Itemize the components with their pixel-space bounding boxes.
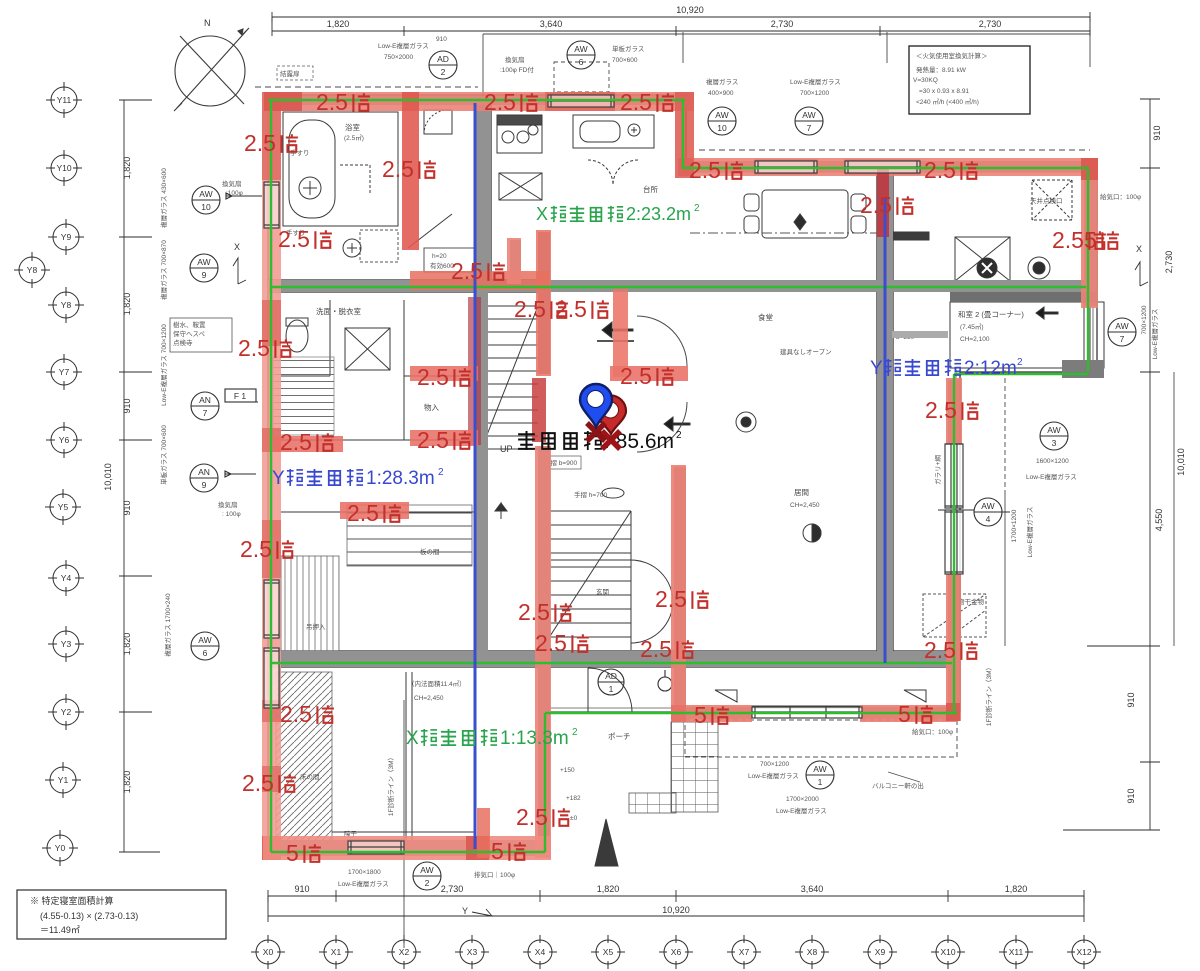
- svg-text:1:28.3m: 1:28.3m: [366, 468, 435, 489]
- note tesuri1: [541, 456, 581, 469]
- svg-text:AW: AW: [813, 764, 826, 774]
- svg-text:Y5: Y5: [58, 502, 69, 512]
- svg-text:<240 ㎥/h (<400 ㎥/h): <240 ㎥/h (<400 ㎥/h): [916, 97, 979, 106]
- svg-text:1,820: 1,820: [597, 884, 620, 894]
- label 2.5x top1: [316, 89, 370, 115]
- svg-text:CH=2,450: CH=2,450: [414, 695, 444, 702]
- axis X10: [931, 935, 965, 969]
- svg-text:3: 3: [1052, 438, 1057, 448]
- svg-text:1: 1: [818, 777, 823, 787]
- wall X10 vertical lower: [948, 574, 959, 720]
- special area calculation table: [17, 890, 226, 939]
- dark segment left band y430: [262, 428, 281, 452]
- porch tile grid: [671, 722, 718, 812]
- roof outline above plan: [255, 30, 1174, 948]
- counter box note: [424, 248, 478, 272]
- label 2.5x stairs-a: [514, 296, 568, 322]
- svg-text:天井点検口: 天井点検口: [1030, 196, 1063, 205]
- axis Y10: [46, 150, 82, 186]
- wall under top band: [266, 96, 690, 105]
- bath drain circle: [299, 177, 321, 199]
- svg-text:Low-E複層ガラス: Low-E複層ガラス: [790, 77, 841, 86]
- svg-text:X: X: [1136, 244, 1142, 254]
- reinforced wall horizontal corridor 2.5x: [410, 430, 478, 446]
- svg-text:床の間: 床の間: [300, 772, 320, 781]
- green diagnosis line left vertical: [270, 100, 272, 852]
- axis X3: [455, 935, 489, 969]
- reinforced wall X12 vertical 2.5x: [1081, 158, 1098, 308]
- svg-text:1,820: 1,820: [122, 633, 132, 656]
- toilet: [286, 320, 308, 352]
- washitsu2 bay window: [1084, 302, 1104, 368]
- dark segment left band y700: [262, 700, 281, 722]
- window frame over top-right band a: [755, 161, 817, 173]
- note balcony leader: [888, 772, 920, 782]
- balcony dashed outline: [685, 720, 957, 757]
- reinforced wall X3 vertical above bottom band: [477, 808, 490, 858]
- svg-text:AW: AW: [802, 110, 815, 120]
- window label AD1: [598, 669, 624, 695]
- dark segment bottom band X3: [466, 836, 489, 860]
- svg-text:＝11.49㎡: ＝11.49㎡: [40, 925, 80, 935]
- label 2.5x topright1: [689, 157, 743, 183]
- svg-text:4,550: 4,550: [1154, 509, 1164, 532]
- window label AW7 right: [1108, 318, 1136, 346]
- window label AN9 left: [190, 464, 256, 492]
- genkan door arcs: [631, 560, 673, 643]
- kitchen back counter dark: [889, 232, 929, 240]
- left window frame top: [264, 182, 280, 228]
- svg-text:排気口｜100φ: 排気口｜100φ: [474, 870, 515, 879]
- reinforced wall stub vertical near kitchen 2.5x: [507, 238, 521, 284]
- reinforced wall X3 vertical dark over blue: [468, 297, 481, 445]
- svg-text:食堂: 食堂: [758, 312, 773, 322]
- stair lower treads: [541, 511, 631, 650]
- svg-text:1700×1800: 1700×1800: [348, 869, 381, 876]
- engawa window frame b: [945, 510, 963, 574]
- note condensation box: [277, 66, 313, 80]
- door bell circle: [658, 677, 672, 691]
- svg-text:+150: +150: [560, 767, 575, 774]
- svg-text:N: N: [204, 18, 211, 28]
- label 5x bottom-l: [286, 840, 321, 866]
- green diagnosis line south horizontal left: [271, 851, 545, 853]
- svg-text:X6: X6: [671, 947, 682, 957]
- svg-text:（内法面積11.4㎡）: （内法面積11.4㎡）: [408, 679, 466, 688]
- label 2.5x midwall: [451, 258, 505, 284]
- svg-text:Low-E複層ガラス: Low-E複層ガラス: [776, 806, 827, 815]
- svg-text:400×900: 400×900: [708, 90, 734, 97]
- svg-text:2: 2: [441, 67, 446, 77]
- washitsu1 wall X2: [406, 672, 412, 844]
- svg-text:Y2: Y2: [61, 707, 72, 717]
- light symbol: [1028, 257, 1050, 279]
- window frame over bottom band: [348, 841, 404, 854]
- hoshi kanamono dashed box: [923, 594, 986, 637]
- reinforced stair wall horizontal left 2.5x: [410, 366, 478, 381]
- svg-text:和室 2 (畳コーナー): 和室 2 (畳コーナー): [958, 309, 1024, 319]
- reinforced wall overlay top-right horizontal 2.5x: [678, 158, 1098, 176]
- outer right dim line: [1173, 372, 1175, 646]
- svg-text:1: 1: [609, 684, 614, 694]
- arrow stair up: [495, 503, 507, 519]
- svg-text:Y1: Y1: [58, 775, 69, 785]
- svg-text:CH=2,450: CH=2,450: [790, 502, 820, 509]
- washitsu2 sliding door arrow: [1036, 307, 1058, 319]
- svg-text:700×1200: 700×1200: [800, 90, 829, 97]
- svg-text:Low-E複層ガラス 700×1200: Low-E複層ガラス 700×1200: [159, 324, 168, 406]
- svg-text:±0: ±0: [570, 815, 578, 822]
- axis Y6: [46, 422, 82, 458]
- svg-text:台所: 台所: [643, 184, 658, 194]
- right dimension line: [1063, 99, 1160, 830]
- svg-text:AW: AW: [715, 110, 728, 120]
- svg-text:AN: AN: [199, 395, 211, 405]
- wall X4 vertical lower: [538, 446, 550, 858]
- svg-text:3,640: 3,640: [801, 884, 824, 894]
- svg-text:1F診断ライン（3M）: 1F診断ライン（3M）: [984, 664, 993, 726]
- wall under top-right band: [681, 161, 1096, 172]
- wall south of porch right: [862, 707, 957, 719]
- svg-text:Low-E複層ガラス: Low-E複層ガラス: [748, 771, 799, 780]
- wall X6 genkan vertical: [674, 467, 686, 717]
- axis Y1: [45, 762, 81, 798]
- svg-text:2,730: 2,730: [979, 19, 1002, 29]
- label 2.5x stairs-b: [555, 296, 609, 322]
- svg-text:洗面・脱衣室: 洗面・脱衣室: [316, 306, 361, 316]
- svg-text:発熱量：8.91 kW: 発熱量：8.91 kW: [916, 65, 967, 74]
- svg-text:X12: X12: [1076, 947, 1091, 957]
- wall X4 stair vertical upper: [538, 232, 550, 374]
- svg-text:給気口：100φ: 給気口：100φ: [1100, 192, 1141, 201]
- reinforced wall mid horizontal over washroom wall 2.5x: [410, 271, 549, 290]
- wall washroom horizontal: [268, 280, 549, 292]
- svg-text:AW: AW: [1115, 321, 1128, 331]
- level marker oval hall: [602, 488, 624, 498]
- svg-text:2,730: 2,730: [1164, 251, 1174, 274]
- svg-text:手摺 h=700: 手摺 h=700: [574, 490, 607, 499]
- svg-text:AW: AW: [197, 257, 210, 267]
- hall door arc lower: [637, 402, 687, 452]
- svg-text:910: 910: [1152, 125, 1162, 140]
- svg-text:1700×1200: 1700×1200: [1011, 509, 1018, 542]
- label 5x bottom-r: [491, 838, 526, 864]
- green diagnosis line south horizontal right: [545, 712, 957, 714]
- label 2.5x X10: [925, 397, 979, 423]
- svg-text:点検寺: 点検寺: [173, 338, 193, 347]
- dark segment left band bottom: [262, 836, 281, 860]
- bath door: [340, 165, 370, 195]
- svg-text:Y7: Y7: [59, 367, 70, 377]
- left dimension line: [119, 100, 160, 852]
- house outline inner: [272, 99, 1093, 848]
- axis Y4: [48, 560, 84, 596]
- svg-text:910: 910: [1126, 788, 1136, 803]
- svg-text:X10: X10: [940, 947, 955, 957]
- arrow door marker 1: [602, 322, 633, 338]
- svg-text:X7: X7: [739, 947, 750, 957]
- stair lower stringer: [541, 511, 631, 650]
- reinforced wall overlay top horizontal 2.5x: [264, 92, 694, 111]
- label 5x right overlapped: [1084, 227, 1119, 253]
- svg-text:: 100φ: : 100φ: [222, 511, 241, 518]
- wc wall: [281, 300, 330, 376]
- svg-text:単板ガラス 700×600: 単板ガラス 700×600: [159, 425, 168, 485]
- vent fan symbol: [977, 258, 997, 278]
- svg-text:2,730: 2,730: [771, 19, 794, 29]
- svg-text:2: 2: [694, 203, 700, 214]
- svg-text:保守ヘスペ: 保守ヘスペ: [173, 329, 206, 338]
- svg-text:玄関: 玄関: [596, 587, 609, 596]
- svg-text:換気扇: 換気扇: [222, 179, 242, 188]
- svg-text:750×2000: 750×2000: [384, 54, 413, 61]
- svg-text:6: 6: [203, 648, 208, 658]
- reinforced wall bottom-right horizontal a 5x: [671, 705, 752, 722]
- window label AW3: [1040, 422, 1068, 450]
- svg-text:Y: Y: [870, 358, 883, 379]
- label 2.5x genkan-r: [655, 586, 709, 612]
- reinforced stair wall horizontal right 2.5x: [610, 366, 688, 381]
- svg-text:1700×2000: 1700×2000: [786, 796, 819, 803]
- svg-text:結露扉: 結露扉: [280, 69, 300, 78]
- svg-text:910: 910: [436, 36, 447, 43]
- svg-text:Low-E複層ガラス: Low-E複層ガラス: [338, 879, 389, 888]
- svg-text:700×1200: 700×1200: [1141, 305, 1148, 334]
- window frame over left band a: [264, 580, 279, 638]
- axis Y11: [46, 82, 82, 118]
- svg-text:10,920: 10,920: [676, 5, 704, 15]
- svg-text:Y11: Y11: [57, 95, 72, 105]
- label 2.5x X4-bottom: [516, 804, 570, 830]
- axis X11: [999, 935, 1033, 969]
- svg-text:2: 2: [572, 727, 578, 738]
- svg-text:1,820: 1,820: [122, 293, 132, 316]
- svg-text:2: 2: [676, 430, 682, 441]
- label 2.5x top2: [484, 89, 538, 115]
- svg-text:700×1200: 700×1200: [760, 761, 789, 768]
- pin X mark blue base: [587, 423, 605, 441]
- map pin blue: [580, 384, 612, 427]
- green diagnosis line X10 vertical: [953, 374, 955, 713]
- label 2.5x corridor-b: [347, 500, 401, 526]
- window porch south: [752, 706, 862, 718]
- green diagnosis line X4 vertical lower: [544, 713, 546, 852]
- black triangle balcony: [595, 819, 618, 866]
- svg-text:X9: X9: [875, 947, 886, 957]
- bottom dimension segments: [268, 890, 1084, 902]
- green area label X-edge-area-1: [406, 727, 578, 749]
- svg-text:複層ガラス 430×600: 複層ガラス 430×600: [159, 168, 168, 228]
- svg-text:Y8: Y8: [27, 265, 38, 275]
- svg-text:10,010: 10,010: [103, 463, 113, 491]
- tokonoma diagonal strip: [276, 672, 332, 844]
- wall south of porch left: [673, 707, 752, 719]
- green area label X-edge-area-2: [536, 203, 700, 224]
- blue diagnosis line X9 vertical: [884, 198, 887, 663]
- green diagnosis line top horizontal: [268, 99, 685, 101]
- corridor wall y512: [281, 511, 476, 513]
- reinforced wall X6 vertical genkan 2.5x: [671, 465, 686, 721]
- svg-text:複層ガラス 1700×240: 複層ガラス 1700×240: [163, 593, 172, 657]
- svg-text:物干金物: 物干金物: [958, 597, 985, 606]
- reinforced wall bottom-right horizontal b 5x: [860, 705, 958, 722]
- label 2.5x stairwall-r: [620, 363, 674, 389]
- axis X4: [523, 935, 557, 969]
- svg-text:物入: 物入: [424, 402, 439, 412]
- wall X3 upper vertical: [476, 100, 491, 292]
- label 2.5x X10-low: [924, 637, 978, 663]
- svg-text:居間: 居間: [794, 488, 809, 497]
- wall Y8 long horizontal: [268, 280, 1086, 292]
- left window frame a: [264, 580, 280, 638]
- porch step grid: [629, 793, 676, 813]
- window label AW10 left: [192, 186, 262, 214]
- svg-text:1,820: 1,820: [1005, 884, 1028, 894]
- svg-text:ポーチ: ポーチ: [608, 732, 631, 741]
- axis X6: [659, 935, 693, 969]
- dark segment left band y766: [262, 766, 281, 792]
- svg-text:700×600: 700×600: [612, 57, 638, 64]
- window top band a: [548, 94, 614, 108]
- svg-text:X: X: [406, 728, 419, 749]
- svg-text:10: 10: [201, 202, 211, 212]
- svg-text:AW: AW: [198, 635, 211, 645]
- axis X8: [795, 935, 829, 969]
- note box left: [170, 318, 232, 352]
- svg-text:Y10: Y10: [56, 163, 71, 173]
- svg-text:V=30KQ: V=30KQ: [913, 77, 938, 84]
- svg-text:910: 910: [122, 398, 132, 413]
- half wall b=350: [892, 331, 948, 338]
- svg-text:(7.45㎡): (7.45㎡): [960, 322, 983, 331]
- axis Y2: [48, 694, 84, 730]
- window label AW10 top: [708, 107, 736, 135]
- svg-text:給気口：100φ: 給気口：100φ: [912, 727, 953, 736]
- itanoma striped floor: [347, 505, 472, 566]
- svg-text:建具なしオープン: 建具なしオープン: [780, 347, 832, 356]
- window frame over X10 band b: [945, 510, 963, 574]
- svg-text:換気扇: 換気扇: [505, 55, 525, 64]
- svg-text:9: 9: [202, 480, 207, 490]
- washitsu1 shoji line: [332, 831, 476, 833]
- dining pendant: [794, 214, 806, 230]
- svg-text:7: 7: [203, 408, 208, 418]
- wall bottom south: [266, 840, 550, 856]
- window label AD2: [429, 51, 457, 79]
- wall X9: [877, 172, 893, 663]
- svg-text:単板ガラス: 単板ガラス: [612, 44, 644, 53]
- dark corner X10 south: [946, 703, 960, 721]
- dark segment top band mid window: [545, 92, 615, 111]
- window top band c: [845, 160, 920, 174]
- axis Y5: [45, 489, 81, 525]
- svg-text:9: 9: [202, 270, 207, 280]
- svg-text:+182: +182: [566, 795, 581, 802]
- pin X mark red base: [602, 431, 620, 449]
- svg-text:板の間: 板の間: [420, 547, 440, 556]
- stair upper treads: [481, 306, 538, 449]
- map pin red: [595, 396, 626, 435]
- reinforced wall X2 vertical 2.5x: [402, 92, 419, 250]
- chair d: [851, 216, 866, 233]
- black total area label: [518, 430, 682, 453]
- green diagnosis line top-right horizontal: [683, 167, 1088, 169]
- svg-text:Y: Y: [272, 468, 285, 489]
- green diagnosis line Y8 horizontal: [271, 286, 1086, 288]
- svg-text:2: 2: [425, 878, 430, 888]
- svg-text:2: 2: [438, 467, 444, 478]
- reinforced wall bottom horizontal 5x: [263, 836, 551, 860]
- dark corner top-left: [264, 92, 302, 111]
- svg-text:複層ガラス 700×870: 複層ガラス 700×870: [159, 240, 168, 300]
- svg-text:X0: X0: [263, 947, 274, 957]
- entrance door arc AD1: [588, 668, 632, 712]
- interphone circle: [736, 412, 756, 432]
- top dimension line overall: [272, 12, 1090, 22]
- axis X12: [1067, 935, 1101, 969]
- svg-text:Y8: Y8: [61, 300, 72, 310]
- svg-text:910: 910: [294, 884, 309, 894]
- grab bar circle: [343, 239, 361, 257]
- label 2.5x left2: [238, 335, 292, 361]
- label 2.5x right overlapped: [1052, 227, 1106, 253]
- svg-text:バルコニー軒の出: バルコニー軒の出: [872, 781, 924, 790]
- washstand cabinet: [345, 328, 390, 370]
- svg-text:(2.5㎡): (2.5㎡): [344, 133, 364, 142]
- svg-text:Low-E複層ガラス: Low-E複層ガラス: [378, 41, 429, 50]
- dark corner X12 top: [1081, 158, 1098, 180]
- svg-text:1:13.3m: 1:13.3m: [500, 728, 569, 749]
- reinforced wall X10 vertical lower 2.5x: [946, 573, 961, 721]
- svg-text:(4.55-0.13) × (2.73-0.13): (4.55-0.13) × (2.73-0.13): [40, 911, 138, 921]
- top dimension line segments: [272, 17, 1090, 36]
- wall Y3: [268, 651, 952, 667]
- window frame over X10 band a: [945, 444, 963, 508]
- reinforced wall horizontal left washroom 2.5x: [273, 436, 343, 452]
- svg-text:Low-E複層ガラス: Low-E複層ガラス: [1150, 309, 1159, 360]
- reinforced wall vertical right of stairs 2.5x: [613, 289, 628, 377]
- washroom hatch floor: [273, 357, 334, 435]
- svg-text:Y9: Y9: [61, 232, 72, 242]
- closet monoiri walls: [404, 376, 476, 440]
- kattegutchi door top: [424, 110, 452, 134]
- svg-text:吊押入: 吊押入: [306, 622, 326, 631]
- axis X9: [863, 935, 897, 969]
- reinforced wall horizontal left corridor 2.5x: [340, 502, 409, 519]
- label 2.5x corridor-m: [417, 427, 471, 453]
- reinforced wall X4 vertical upper 2.5x: [536, 230, 551, 376]
- reinforced wall X9 vertical dark 2.5x: [877, 167, 889, 237]
- green diagnosis line washitsu2 bottom horizontal: [954, 373, 1088, 375]
- svg-text:AW: AW: [199, 189, 212, 199]
- svg-text:複層ガラス: 複層ガラス: [706, 77, 738, 86]
- window top band b kitchen: [755, 160, 817, 174]
- stair upper stringer: [481, 306, 538, 450]
- axis X1: [319, 935, 353, 969]
- svg-text:910: 910: [122, 500, 132, 515]
- axis X5: [591, 935, 625, 969]
- kitchen stove: [497, 115, 542, 153]
- wall dining top: [686, 281, 1086, 291]
- svg-text:2:12m: 2:12m: [964, 358, 1017, 379]
- ceiling access hatch dashed: [1032, 180, 1072, 220]
- svg-text:AD: AD: [437, 54, 449, 64]
- svg-text:AN: AN: [198, 467, 210, 477]
- door arcs kitchen dashed: [588, 160, 638, 185]
- svg-text:2:23.2m: 2:23.2m: [626, 204, 691, 224]
- window label AN7 left: [191, 392, 258, 420]
- wall washitsu2 top: [950, 292, 1097, 302]
